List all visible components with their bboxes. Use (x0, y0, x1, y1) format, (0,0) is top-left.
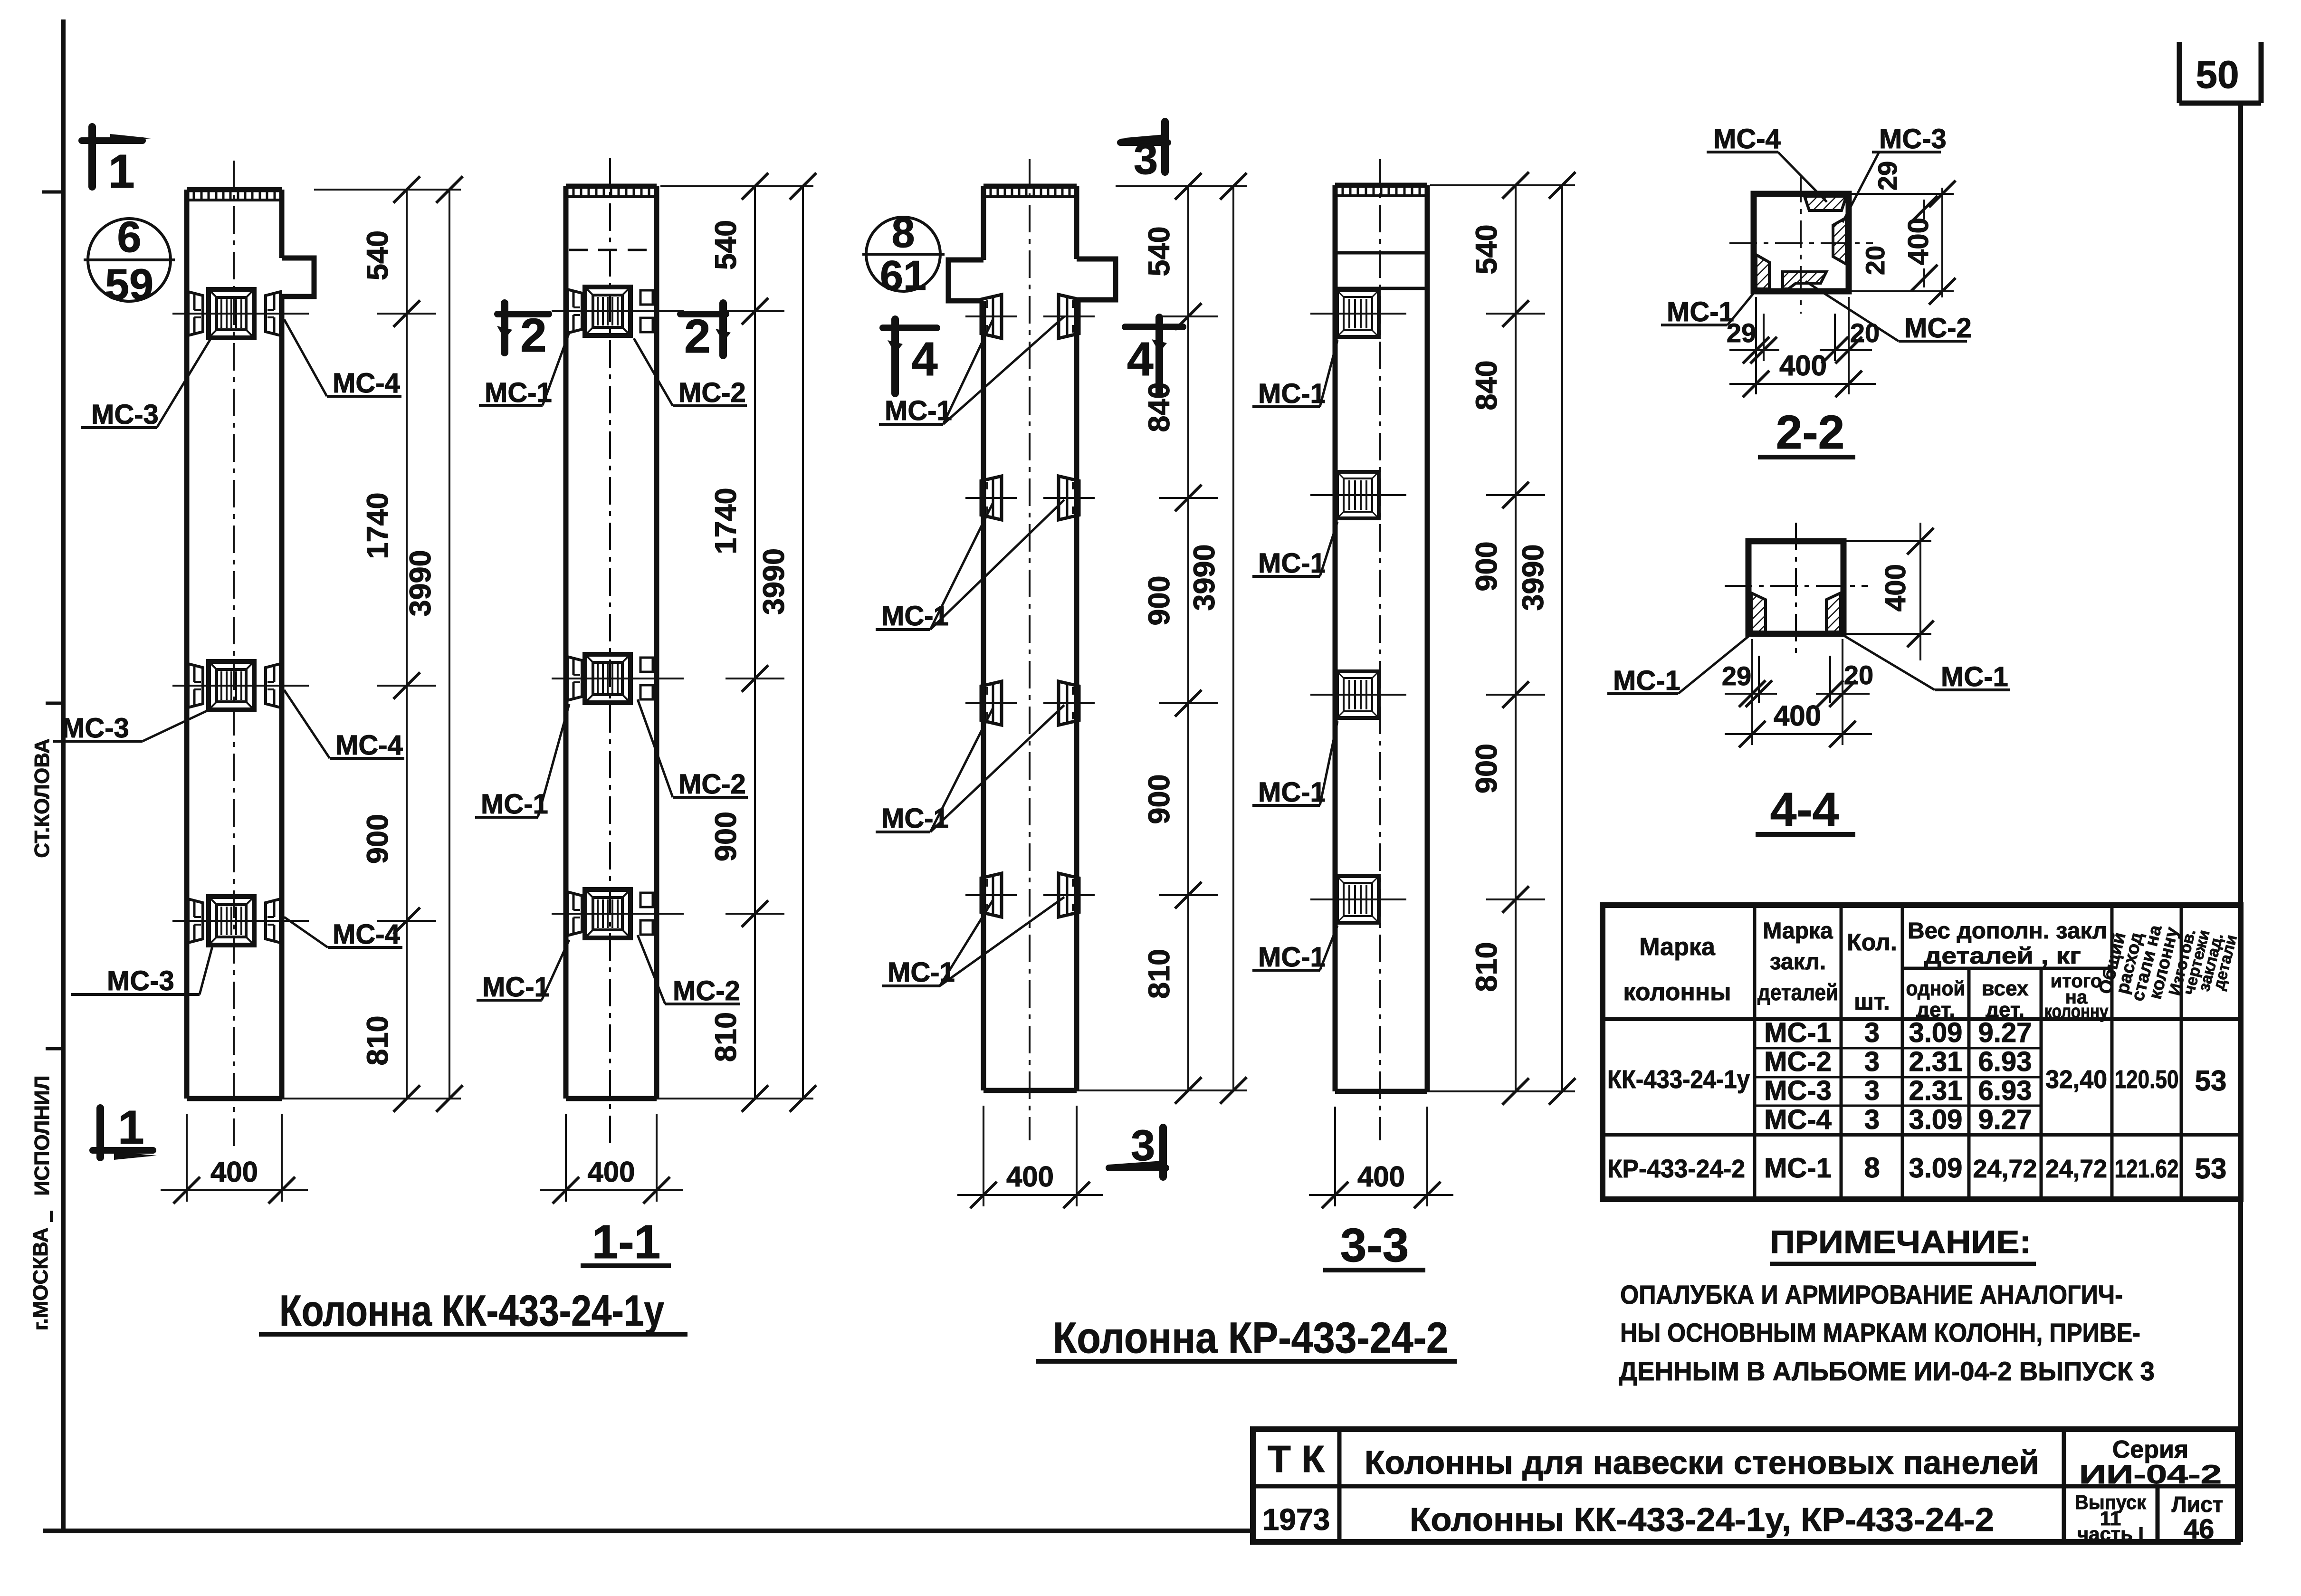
svg-text:4-4: 4-4 (1770, 783, 1839, 836)
svg-text:3990: 3990 (757, 548, 791, 615)
svg-text:МС-1: МС-1 (1258, 777, 1326, 808)
svg-text:1740: 1740 (709, 487, 743, 554)
svg-text:1: 1 (118, 1101, 144, 1154)
svg-text:МС-3: МС-3 (107, 965, 174, 996)
svg-text:шт.: шт. (1854, 988, 1890, 1015)
svg-text:ДЕННЫМ В АЛЬБОМЕ ИИ-04-2 ВЫПУ: ДЕННЫМ В АЛЬБОМЕ ИИ-04-2 ВЫПУСК 3 (1619, 1356, 2155, 1386)
svg-text:50: 50 (2196, 53, 2239, 96)
column 1-1 centre line (609, 158, 611, 1150)
detail 4-4 bottom dims 29/20/400 (1722, 639, 1873, 747)
svg-text:6: 6 (117, 213, 141, 261)
МС-3 label row1 col1 (81, 338, 211, 430)
svg-text:Марка: Марка (1639, 933, 1716, 961)
svg-text:4: 4 (911, 333, 938, 386)
svg-text:3990: 3990 (404, 550, 437, 616)
svg-text:Вес дополн. закл: Вес дополн. закл (1908, 918, 2107, 944)
svg-text:400: 400 (210, 1156, 258, 1188)
svg-text:540: 540 (1470, 224, 1503, 274)
detail 4-4 outline (1748, 541, 1843, 634)
svg-text:24,72: 24,72 (2045, 1155, 2107, 1183)
detail 4-4 plate МС-1 right (1826, 593, 1841, 632)
svg-text:810: 810 (1470, 942, 1503, 992)
svg-text:3: 3 (1864, 1075, 1880, 1106)
sheet number box 50 (2179, 42, 2261, 103)
svg-text:3.09: 3.09 (1909, 1017, 1963, 1048)
svg-text:деталей: деталей (1757, 980, 1838, 1005)
svg-text:400: 400 (1774, 700, 1821, 732)
svg-text:20: 20 (1860, 246, 1890, 275)
embedded plates МС-1 (square) col2 (585, 287, 630, 335)
column 1-1 section view body (566, 186, 657, 1099)
svg-text:МС-1: МС-1 (482, 972, 550, 1003)
МС-1 label 1 col4 (1252, 340, 1337, 409)
svg-text:3.09: 3.09 (1909, 1153, 1963, 1184)
label 2-2 (1758, 406, 1855, 459)
svg-text:МС-1: МС-1 (1258, 548, 1326, 579)
svg-text:3: 3 (1864, 1017, 1880, 1048)
note body (1619, 1280, 2155, 1386)
svg-text:1740: 1740 (361, 492, 394, 559)
svg-text:53: 53 (2195, 1065, 2227, 1097)
МС-4 label row3 col1 (284, 917, 402, 950)
dim 400 col1 (161, 1114, 308, 1204)
column KR console left (948, 260, 983, 301)
МС-1 label 4 col4 (1252, 926, 1337, 973)
svg-text:3990: 3990 (1188, 544, 1221, 611)
title Колонна КР-433-24-2 (1036, 1314, 1457, 1362)
svg-text:540: 540 (1143, 226, 1176, 276)
svg-text:КК-433-24-1у: КК-433-24-1у (1607, 1065, 1750, 1094)
marker circle 6/59 (84, 213, 175, 309)
column KR console right (1077, 259, 1116, 300)
section mark 3 top (1120, 122, 1168, 183)
svg-text:НЫ ОСНОВНЫМ МАРКАМ КОЛОНН, ПРИ: НЫ ОСНОВНЫМ МАРКАМ КОЛОНН, ПРИВЕ- (1620, 1318, 2140, 1348)
svg-text:МС-1: МС-1 (1258, 942, 1326, 973)
МС-1 label 2 col3 (876, 503, 993, 631)
svg-text:часть I: часть I (2077, 1524, 2144, 1545)
sheet frame right border (2238, 102, 2243, 1542)
svg-text:Колонны для навески стеновых п: Колонны для навески стеновых панелей (1365, 1444, 2039, 1481)
svg-text:400: 400 (1779, 350, 1827, 382)
svg-text:МС-2: МС-2 (678, 769, 746, 800)
svg-text:одной: одной (1906, 977, 1966, 1000)
svg-text:Марка: Марка (1763, 918, 1833, 944)
svg-text:МС-1: МС-1 (881, 601, 949, 631)
svg-text:6.93: 6.93 (1978, 1075, 2032, 1106)
marker circle 8/61 (862, 209, 945, 299)
svg-text:МС-1: МС-1 (885, 395, 952, 426)
svg-text:МС-1: МС-1 (1613, 665, 1680, 696)
svg-text:МС-2: МС-2 (678, 377, 746, 408)
svg-text:МС-4: МС-4 (1764, 1104, 1832, 1135)
svg-text:2.31: 2.31 (1909, 1046, 1963, 1077)
table header texts (1623, 918, 2109, 1022)
column KK centre line (233, 161, 235, 1150)
svg-text:МС-2: МС-2 (1764, 1046, 1832, 1077)
МС-3 label row2 col1 (53, 709, 211, 744)
svg-text:46: 46 (2184, 1514, 2215, 1545)
svg-text:810: 810 (361, 1015, 394, 1065)
title block frame (1253, 1429, 2238, 1542)
plate rows col4 (square plates МС-1) (1310, 313, 1406, 315)
svg-text:29: 29 (1872, 161, 1902, 191)
svg-text:деталей , кг: деталей , кг (1924, 944, 2081, 969)
svg-text:2: 2 (520, 309, 547, 362)
svg-text:900: 900 (1470, 541, 1503, 591)
detail 2-2 outline (1754, 194, 1849, 291)
detail 4-4 plate МС-1 left (1751, 593, 1766, 632)
svg-text:Лист: Лист (2172, 1492, 2224, 1517)
МС-1 label row1 col2 (479, 333, 569, 408)
svg-text:400: 400 (1880, 564, 1911, 612)
dim 400 col4 (1309, 1107, 1453, 1208)
svg-text:53: 53 (2195, 1153, 2227, 1185)
edge anchor pieces col2 (567, 289, 582, 333)
svg-text:колонны: колонны (1623, 978, 1731, 1006)
section mark 4 left (883, 319, 938, 393)
svg-text:20: 20 (1850, 318, 1880, 348)
svg-text:МС-2: МС-2 (1904, 313, 1972, 344)
МС-1 label 2 col4 (1252, 522, 1337, 579)
svg-text:3: 3 (1131, 1121, 1155, 1170)
section mark 1 bottom (93, 1101, 157, 1160)
svg-text:МС-1: МС-1 (1941, 661, 2008, 692)
svg-text:24,72: 24,72 (1973, 1155, 2037, 1183)
table rotated header col 8 (2166, 927, 2241, 997)
svg-text:840: 840 (1470, 360, 1503, 410)
svg-text:3-3: 3-3 (1340, 1219, 1409, 1272)
svg-text:2.31: 2.31 (1909, 1075, 1963, 1106)
МС-1 label 3 col4 (1252, 721, 1337, 808)
hidden console line (dashed) col2 (569, 249, 654, 251)
detail 2-2 plate МС-1 (left) (1756, 255, 1769, 289)
column KK-433-24-1u front view body (187, 190, 282, 1099)
detail 4-4 right dim 400 (1846, 523, 1934, 660)
svg-text:МС-1: МС-1 (1764, 1153, 1832, 1184)
svg-text:9.27: 9.27 (1978, 1104, 2032, 1135)
svg-text:всех: всех (1982, 977, 2029, 1000)
svg-text:900: 900 (709, 812, 743, 861)
svg-text:900: 900 (1470, 744, 1503, 793)
title block grid (1253, 1429, 2238, 1542)
svg-text:МС-3: МС-3 (62, 713, 129, 744)
note heading ПРИМЕЧАНИЕ (1770, 1224, 2036, 1264)
svg-text:400: 400 (1902, 218, 1934, 265)
dim line 540/840/900/900/810 col4 (1430, 184, 1575, 186)
edge anchor pieces col1 (188, 292, 203, 335)
title block texts row2 (1262, 1491, 2224, 1545)
dim line 3990 col1 (404, 176, 463, 1112)
svg-text:900: 900 (1143, 575, 1176, 625)
svg-text:ИСПОЛНИЛ: ИСПОЛНИЛ (30, 1075, 54, 1195)
svg-text:колонну: колонну (2044, 1001, 2109, 1022)
title block texts row1 (1268, 1436, 2222, 1489)
svg-text:810: 810 (709, 1012, 743, 1062)
svg-text:МС-4: МС-4 (333, 368, 400, 399)
svg-text:400: 400 (1357, 1161, 1405, 1193)
МС-2 label row2 col2 (638, 699, 748, 800)
svg-text:59: 59 (105, 260, 153, 309)
dim line 540/1740/900/810 col1 (314, 189, 461, 191)
svg-text:МС-2: МС-2 (673, 975, 740, 1006)
svg-text:29: 29 (1722, 661, 1751, 691)
table row values КР (1607, 1152, 2226, 1185)
svg-text:900: 900 (1143, 774, 1176, 824)
svg-text:3990: 3990 (1517, 544, 1550, 611)
dim 400 col3 (957, 1106, 1103, 1208)
МС-4 label row2 col1 (284, 690, 404, 761)
МС-1 label 3 col3 (876, 708, 993, 834)
section mark 2 right (680, 303, 731, 363)
left margin separator tick (50, 1211, 53, 1222)
detail 2-2 centre lines (1729, 242, 1873, 244)
МС-1 label 4 col3 (882, 900, 993, 988)
svg-text:3: 3 (1864, 1104, 1880, 1135)
table vertical grid (1755, 905, 2181, 1199)
svg-text:МС-4: МС-4 (335, 730, 403, 761)
console cut lines col4 (1335, 251, 1427, 255)
svg-text:МС-3: МС-3 (1764, 1075, 1832, 1106)
svg-text:Колонна КК-433-24-1у: Колонна КК-433-24-1у (279, 1287, 664, 1335)
column KR-433-24-2 front view body (983, 186, 1077, 1090)
svg-text:ОПАЛУБКА И АРМИРОВАНИЕ АНАЛОГИ: ОПАЛУБКА И АРМИРОВАНИЕ АНАЛОГИЧ- (1620, 1280, 2123, 1309)
column KR centre line (1029, 159, 1031, 1140)
section mark 3 bottom (1109, 1121, 1166, 1177)
detail 2-2 plate МС-4 (top) (1805, 196, 1846, 210)
svg-text:СТ.КОЛОВА: СТ.КОЛОВА (30, 738, 54, 858)
sheet frame left border (61, 19, 66, 1531)
dim line 3990 col2 (757, 173, 816, 1112)
svg-text:540: 540 (361, 230, 394, 280)
svg-text:1: 1 (108, 145, 135, 198)
svg-text:120.50: 120.50 (2115, 1065, 2179, 1094)
svg-text:4: 4 (1127, 333, 1154, 386)
section mark 2 left (497, 303, 549, 362)
svg-text:810: 810 (1143, 949, 1176, 999)
svg-text:8: 8 (892, 209, 915, 256)
section mark 1 top (82, 127, 151, 198)
svg-text:1-1: 1-1 (592, 1215, 661, 1269)
svg-text:МС-1: МС-1 (1667, 296, 1734, 327)
detail 2-2 labels (1707, 124, 1827, 202)
МС-1 label 1 col3 (879, 319, 993, 426)
svg-text:ПРИМЕЧАНИЕ:: ПРИМЕЧАНИЕ: (1770, 1224, 2031, 1260)
table row values КК (1607, 1017, 2226, 1135)
svg-text:6.93: 6.93 (1978, 1046, 2032, 1077)
svg-text:КР-433-24-2: КР-433-24-2 (1607, 1155, 1745, 1183)
svg-text:Кол.: Кол. (1847, 929, 1897, 956)
detail 2-2 bottom dims 29/20/400 (1727, 297, 1880, 397)
svg-text:32,40: 32,40 (2045, 1065, 2107, 1094)
svg-text:МС-1: МС-1 (485, 377, 552, 408)
label 3-3 (1323, 1219, 1425, 1272)
svg-text:1973: 1973 (1262, 1502, 1330, 1537)
embedded plates МС-3 (square) col1 (209, 289, 254, 338)
svg-text:Колонна КР-433-24-2: Колонна КР-433-24-2 (1053, 1314, 1448, 1362)
dim line 3990 col3 (1188, 173, 1247, 1104)
svg-text:8: 8 (1864, 1152, 1880, 1184)
svg-text:29: 29 (1727, 318, 1756, 348)
detail 4-4 centre lines (1725, 585, 1868, 587)
detail 4-4 labels (1607, 635, 1750, 696)
svg-text:закл.: закл. (1770, 949, 1826, 975)
plate row centre lines col1 (172, 313, 309, 315)
svg-text:ИИ-04-2: ИИ-04-2 (2079, 1459, 2222, 1489)
svg-text:г.МОСКВА: г.МОСКВА (29, 1227, 52, 1330)
column 3-3 centre line (1379, 159, 1381, 1140)
border tick marks (42, 191, 63, 194)
svg-text:МС-1: МС-1 (881, 803, 949, 834)
svg-text:Т К: Т К (1268, 1438, 1325, 1480)
svg-text:2-2: 2-2 (1776, 406, 1845, 459)
svg-text:МС-4: МС-4 (1713, 124, 1781, 154)
dim line 540/1740/900/810 col2 (660, 185, 813, 187)
МС-1 label row3 col2 (477, 940, 569, 1003)
svg-text:540: 540 (709, 220, 743, 270)
svg-text:9.27: 9.27 (1978, 1017, 2032, 1048)
svg-text:20: 20 (1844, 660, 1873, 690)
plate row centre lines col2 (552, 310, 684, 312)
table rotated header col 7 (2095, 923, 2182, 1003)
svg-text:3: 3 (1864, 1046, 1880, 1077)
МС-1 label row2 col2 (475, 704, 569, 820)
detail 2-2 plate МС-2 (bottom) (1783, 272, 1826, 289)
svg-text:МС-1: МС-1 (1258, 378, 1326, 409)
svg-text:МС-1: МС-1 (1764, 1017, 1832, 1048)
svg-text:МС-4: МС-4 (333, 919, 400, 950)
svg-text:900: 900 (361, 814, 394, 864)
svg-text:3: 3 (1134, 135, 1158, 183)
sheet frame bottom border (43, 1529, 1253, 1533)
dim line 540/840/900/900/810 col3 (1116, 185, 1247, 187)
svg-text:400: 400 (1006, 1161, 1054, 1193)
svg-text:3.09: 3.09 (1909, 1104, 1963, 1135)
МС-2 label row1 col2 (634, 338, 747, 408)
column 3-3 section view body (1335, 185, 1427, 1091)
МС-4 label row1 col1 (284, 319, 401, 399)
section mark 4 right (1125, 317, 1183, 393)
svg-text:2: 2 (684, 310, 711, 363)
dim line 3990 col4 (1517, 172, 1575, 1105)
detail 2-2 plate МС-3 (right) (1833, 218, 1846, 264)
table outline (1603, 905, 2241, 1199)
svg-text:61: 61 (880, 252, 926, 299)
detail 2-2 right dim 29/400/20 (1851, 161, 1956, 305)
svg-text:121.62: 121.62 (2115, 1155, 2179, 1183)
svg-text:МС-3: МС-3 (91, 399, 159, 430)
dim 400 col2 (540, 1114, 683, 1204)
label 1-1 (581, 1215, 671, 1269)
plate rows col3 (edge plates МС-1) (965, 315, 1017, 317)
table horizontal grid (1603, 968, 2241, 1135)
label 4-4 (1756, 783, 1855, 836)
svg-text:Колонны КК-433-24-1у, КР-433-2: Колонны КК-433-24-1у, КР-433-24-2 (1410, 1501, 1994, 1538)
МС-3 label row3 col1 (71, 945, 213, 996)
svg-text:400: 400 (587, 1156, 635, 1188)
МС-2 label row3 col2 (638, 935, 740, 1006)
svg-text:МС-3: МС-3 (1879, 124, 1947, 154)
title Колонна КК-433-24-1у (259, 1287, 687, 1335)
column KK console (right) (282, 258, 314, 296)
